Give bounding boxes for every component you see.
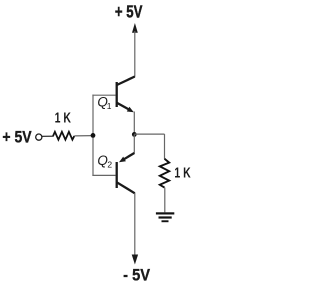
wire: left base rail (Q1 base to Q2 base)	[92, 95, 94, 176]
transistor Q1 (NPN) base bar	[116, 82, 118, 107]
Q1 emitter arrowhead	[127, 107, 134, 113]
wire: Q1 base lead	[92, 94, 115, 96]
wire: input resistor to base node	[74, 135, 93, 137]
svg-text:1 K: 1 K	[174, 163, 191, 180]
wire: output node to right rail	[134, 133, 164, 135]
wire: Q2 base lead	[92, 174, 115, 176]
transistor Q2 (PNP) base bar	[116, 162, 118, 188]
node: base junction dot	[91, 133, 96, 138]
ground symbol	[156, 212, 174, 222]
wire: terminal to input resistor	[42, 135, 54, 137]
node: emitter junction dot	[132, 132, 137, 137]
Q2 collector lead	[117, 182, 135, 193]
arrow up to +5V supply	[132, 23, 138, 33]
svg-text:- 5V: - 5V	[123, 267, 150, 283]
svg-text:+ 5V: + 5V	[115, 3, 143, 22]
svg-text:1 K: 1 K	[55, 108, 72, 125]
wire: +5V rail down to Q1 collector	[134, 31, 136, 77]
wire: output resistor to ground	[164, 188, 166, 213]
wire: Q1 emitter down to output node	[133, 112, 135, 135]
resistor 1K (output)	[160, 159, 169, 188]
wire: output node down to Q2 emitter	[133, 134, 135, 153]
arrow down to -5V supply	[132, 255, 138, 265]
wire: right rail down to output resistor	[164, 134, 166, 159]
input terminal circle	[36, 134, 42, 140]
Q2 emitter lead	[123, 153, 134, 160]
svg-text:+ 5V: + 5V	[2, 128, 32, 146]
resistor 1K (input)	[53, 132, 74, 140]
Q1 collector lead	[117, 77, 135, 86]
Q2 emitter arrowhead (points into base: PNP)	[119, 157, 126, 163]
Q1 emitter lead	[117, 103, 131, 110]
wire: Q2 collector down to -5V	[134, 193, 136, 255]
